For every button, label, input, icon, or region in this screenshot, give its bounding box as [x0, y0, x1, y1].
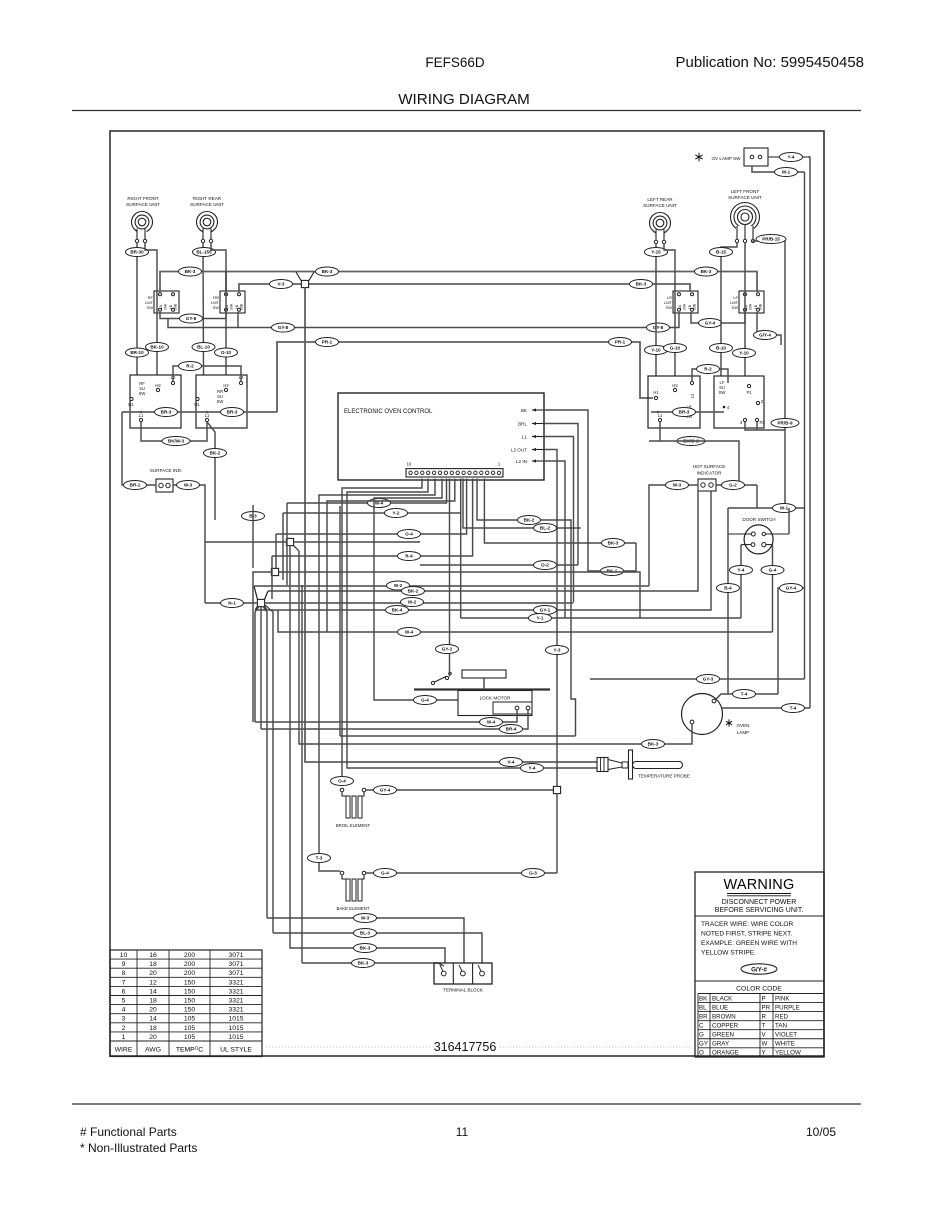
capsule R-4 y556: [398, 552, 421, 561]
svg-text:NOTED FIRST, STRIPE NEXT.: NOTED FIRST, STRIPE NEXT.: [701, 931, 792, 938]
capsule BR-30: [126, 248, 149, 257]
wire W-1 row y508: [728, 507, 805, 509]
svg-text:BK-4: BK-4: [392, 608, 403, 613]
wire N-1 row y603: [205, 602, 257, 604]
capsule O-4 y534: [398, 530, 421, 539]
svg-text:14: 14: [149, 1016, 157, 1023]
capsule GY-4 right bridge: [699, 319, 722, 328]
wire LR unit right lead down: [664, 244, 675, 376]
terminal block TB1: [434, 963, 492, 993]
svg-text:8: 8: [122, 970, 126, 977]
svg-text:V-4: V-4: [508, 760, 515, 765]
svg-text:150: 150: [184, 1007, 196, 1014]
svg-text:RIGHT FRONT: RIGHT FRONT: [127, 196, 158, 201]
svg-text:BK-2: BK-2: [408, 589, 419, 594]
svg-text:20: 20: [149, 1034, 157, 1041]
svg-text:3321: 3321: [228, 979, 243, 986]
svg-text:BRL: BRL: [518, 421, 527, 426]
wire lamp right to x810 y708: [722, 707, 810, 709]
node square junction x290 y542: [294, 546, 300, 552]
svg-text:BL-3: BL-3: [360, 931, 371, 936]
svg-text:200: 200: [184, 970, 196, 977]
capsule BL-3 y933: [354, 929, 377, 938]
capsule BK-3 bus right: [630, 280, 653, 289]
svg-text:TERMINAL BLOCK: TERMINAL BLOCK: [443, 988, 484, 993]
svg-text:10/05: 10/05: [806, 1125, 836, 1139]
capsule BK-4 y610: [386, 606, 409, 615]
wire pin15 to probe Y: [347, 479, 597, 769]
capsule B-10: [710, 344, 733, 353]
wire lock motor right terminal to x261: [261, 710, 528, 729]
svg-text:B-4: B-4: [724, 586, 732, 591]
svg-text:SW: SW: [147, 305, 154, 310]
wire y543 from connector: [484, 479, 636, 544]
svg-text:R: R: [762, 1013, 767, 1020]
svg-text:V-3: V-3: [278, 282, 285, 287]
svg-text:B-10: B-10: [716, 346, 726, 351]
svg-text:H1: H1: [128, 402, 134, 407]
svg-text:G/Y-#: G/Y-#: [751, 967, 767, 974]
svg-text:1015: 1015: [228, 1034, 243, 1041]
svg-text:Y-10: Y-10: [651, 348, 661, 353]
svg-text:H2: H2: [155, 383, 161, 388]
node square x557 y790: [553, 786, 560, 793]
capsule BK/W-3: [162, 437, 190, 446]
capsule Y-10: [645, 346, 668, 355]
svg-text:BAKE ELEMENT: BAKE ELEMENT: [337, 906, 370, 911]
svg-text:3071: 3071: [228, 952, 243, 959]
svg-text:H2: H2: [672, 383, 678, 388]
capsule T-3 bake drop: [308, 854, 331, 863]
wire LR unit left lead down: [655, 244, 657, 376]
svg-text:BL-2: BL-2: [540, 526, 551, 531]
svg-text:PINK: PINK: [775, 995, 790, 1002]
wire EOC pin BRL right vertical: [544, 424, 579, 566]
svg-text:OV LAMP SW: OV LAMP SW: [711, 156, 741, 161]
svg-text:30A: 30A: [164, 303, 168, 310]
capsule B-4: [717, 584, 740, 593]
svg-text:BK/W-3: BK/W-3: [168, 439, 185, 444]
wire RF L1 to RR L1 bridge: [141, 422, 207, 441]
capsule BK-3 y963: [352, 959, 375, 968]
svg-text:30A: 30A: [749, 303, 753, 310]
node junction square y284: [296, 272, 301, 281]
temperature probe: [597, 750, 690, 779]
svg-text:GREEN: GREEN: [712, 1032, 734, 1039]
wire pin16 to broil left: [342, 479, 422, 787]
svg-text:BK-2: BK-2: [524, 518, 535, 523]
capsule GY-4 right low: [780, 584, 803, 593]
capsule BK/O-2: [677, 437, 705, 446]
capsule W-4 y632: [398, 628, 421, 637]
capsule BK-3 lamp bottom: [642, 740, 665, 749]
svg-text:R-2: R-2: [704, 367, 712, 372]
surface unit left front: [728, 189, 762, 243]
svg-text:G-4: G-4: [421, 698, 429, 703]
capsule Y-1 y618: [529, 614, 552, 623]
svg-text:BK-2: BK-2: [210, 451, 221, 456]
svg-text:P2: P2: [759, 420, 765, 425]
svg-text:BR-10: BR-10: [130, 350, 144, 355]
svg-text:W-2: W-2: [394, 583, 403, 588]
wire L1 bus right y412: [651, 411, 724, 413]
wire y586 long: [254, 585, 649, 587]
wire bus V y284: [239, 284, 690, 292]
svg-text:VIOLET: VIOLET: [775, 1032, 797, 1039]
capsule BK-10: [146, 343, 169, 352]
svg-text:SW: SW: [217, 399, 224, 404]
lock switch contact: [431, 672, 451, 684]
capsule BR-1: [124, 481, 147, 490]
wire LF unit mid lead down: [744, 243, 746, 376]
capsule Y-4 probe: [521, 764, 544, 773]
wire lock motor left terminal to x255: [255, 710, 517, 722]
svg-text:H1: H1: [194, 402, 200, 407]
svg-text:G-4: G-4: [381, 871, 389, 876]
svg-text:T-3: T-3: [316, 856, 323, 861]
wire surface indicator row y485: [122, 412, 156, 485]
capsule B-3 on x253: [242, 512, 265, 521]
svg-text:BL-10: BL-10: [197, 345, 210, 350]
hot surface indicator lamp: [693, 464, 726, 491]
svg-text:WIRE: WIRE: [115, 1047, 133, 1054]
svg-text:18: 18: [149, 1025, 157, 1032]
door switch S1: [728, 517, 789, 554]
svg-text:W-3: W-3: [361, 916, 370, 921]
svg-text:H1: H1: [653, 390, 659, 395]
svg-text:W-1: W-1: [780, 506, 789, 511]
svg-text:* Non-Illustrated Parts: * Non-Illustrated Parts: [80, 1141, 197, 1155]
wire bus PR y342: [277, 342, 653, 412]
svg-text:SURFACE IND.: SURFACE IND.: [150, 468, 182, 473]
wire RF unit left lead down: [136, 243, 138, 375]
svg-text:Y-1: Y-1: [537, 616, 544, 621]
wire RR unit right lead down: [211, 243, 226, 375]
wire x461 down to y618: [460, 513, 462, 618]
capsule G-4 lock motor: [414, 696, 437, 705]
capsule GY-8 long left: [272, 323, 295, 332]
wire terminal row y963: [302, 963, 444, 966]
svg-text:BK-3: BK-3: [636, 282, 647, 287]
dotted rule at part number: [266, 1046, 430, 1048]
svg-text:BK-3: BK-3: [608, 541, 619, 546]
wire y528 from connector: [463, 479, 581, 529]
svg-text:W: W: [762, 1041, 768, 1048]
svg-text:HOT SURFACE: HOT SURFACE: [693, 464, 726, 469]
capsule GY-2 lock switch: [436, 645, 459, 654]
svg-text:18: 18: [149, 998, 157, 1005]
wire y632 long: [278, 610, 773, 632]
capsule O-4 broil drop: [331, 777, 354, 786]
oven lamp switch: [695, 148, 768, 166]
node square junction x275 y572: [271, 568, 278, 575]
svg-text:30B: 30B: [174, 303, 178, 310]
electronic oven control U1: [338, 393, 544, 480]
svg-text:BK-3: BK-3: [360, 946, 371, 951]
wire bus L1 top y271: [160, 272, 757, 293]
svg-text:1015: 1015: [228, 1025, 243, 1032]
wire y679 across to right: [590, 678, 805, 680]
surface unit left rear: [643, 197, 677, 244]
switch RF limit: [145, 291, 179, 313]
svg-text:GY-3: GY-3: [703, 677, 714, 682]
wire right bus x810 down: [808, 157, 810, 708]
svg-text:Y: Y: [762, 1050, 766, 1057]
svg-text:O-10: O-10: [221, 350, 232, 355]
switch RF surface: [128, 375, 181, 428]
capsule W-2 y602: [401, 598, 424, 607]
wire probe V main vertical x305: [305, 288, 597, 762]
wire door bottom-left pin down to y618: [740, 545, 742, 618]
svg-text:W-3: W-3: [184, 483, 193, 488]
svg-text:UL STYLE: UL STYLE: [220, 1047, 252, 1054]
wire LF unit right lead to PR/B bus: [753, 241, 785, 508]
svg-text:3: 3: [122, 1016, 126, 1023]
wire y591 long: [268, 491, 698, 591]
svg-text:SW: SW: [719, 390, 726, 395]
svg-text:BK-1: BK-1: [607, 569, 618, 574]
wire RR limit bottom right riser: [237, 312, 239, 328]
svg-text:R-4: R-4: [405, 554, 413, 559]
svg-text:COLOR CODE: COLOR CODE: [736, 986, 782, 993]
svg-text:30A: 30A: [683, 303, 687, 310]
svg-text:20: 20: [149, 970, 157, 977]
svg-text:OVEN: OVEN: [736, 723, 749, 728]
capsule BL-2 y528: [534, 524, 557, 533]
wire LF P2 pins down to PR/B bus: [745, 422, 785, 430]
capsule BK-2 y591: [402, 587, 425, 596]
switch RR limit: [211, 291, 245, 313]
capsule R-2 right: [697, 365, 720, 374]
node square junction main x261 y603: [254, 586, 258, 600]
svg-text:Y-4: Y-4: [788, 155, 795, 160]
svg-text:RIGHT REAR: RIGHT REAR: [193, 196, 222, 201]
svg-text:200: 200: [184, 952, 196, 959]
svg-text:LOCK MOTOR: LOCK MOTOR: [480, 696, 511, 701]
svg-text:GY-4: GY-4: [380, 788, 391, 793]
svg-text:30B: 30B: [759, 303, 763, 310]
svg-text:BR-1: BR-1: [130, 483, 141, 488]
svg-text:BK-3: BK-3: [701, 269, 712, 274]
bake element: [337, 871, 370, 911]
capsule BR-4 motor right: [500, 725, 523, 734]
capsule V-3 bus: [270, 280, 293, 289]
svg-text:Publication No: 5995450458: Publication No: 5995450458: [676, 54, 864, 71]
svg-text:200: 200: [184, 961, 196, 968]
surface unit right rear: [190, 196, 224, 243]
wire gauge table: [110, 950, 262, 1057]
svg-text:3321: 3321: [228, 1007, 243, 1014]
wire right x757 down to y508: [756, 485, 758, 508]
svg-text:4: 4: [122, 1007, 126, 1014]
wire LR-LF limit bottom bridge: [691, 312, 745, 323]
svg-text:BROIL ELEMENT: BROIL ELEMENT: [336, 823, 371, 828]
svg-text:GY-2: GY-2: [442, 647, 453, 652]
svg-text:O-4: O-4: [338, 779, 346, 784]
svg-text:T-4: T-4: [741, 692, 748, 697]
svg-text:BK-3: BK-3: [185, 269, 196, 274]
wire door bottom-right pin down to y632: [772, 545, 774, 632]
svg-text:BR-3: BR-3: [679, 410, 690, 415]
capsule BK-3 y948: [354, 944, 377, 953]
svg-text:RED: RED: [775, 1013, 789, 1020]
footer rule: [72, 1103, 861, 1105]
svg-text:B-15: B-15: [716, 250, 726, 255]
svg-text:YELLOW STRIPE.: YELLOW STRIPE.: [701, 950, 756, 957]
capsule G-4 bake: [374, 869, 397, 878]
svg-text:W-1: W-1: [782, 170, 791, 175]
svg-text:12: 12: [149, 979, 157, 986]
svg-text:SW: SW: [732, 305, 739, 310]
svg-text:PURPLE: PURPLE: [775, 1004, 800, 1011]
svg-text:BR-30: BR-30: [130, 250, 144, 255]
capsule BL-155: [193, 248, 216, 257]
svg-text:GY-4: GY-4: [705, 321, 716, 326]
svg-text:ELECTRONIC OVEN CONTROL: ELECTRONIC OVEN CONTROL: [344, 409, 433, 415]
svg-text:BL: BL: [699, 1004, 707, 1011]
wire y572 left to x253: [253, 572, 271, 722]
svg-text:BR-3: BR-3: [227, 410, 238, 415]
svg-text:1B: 1B: [688, 304, 692, 309]
svg-text:SURFACE UNIT: SURFACE UNIT: [728, 195, 762, 200]
svg-text:LAMP: LAMP: [737, 730, 750, 735]
wire T-4 chain up to GY-4 row: [778, 588, 805, 694]
svg-text:BLACK: BLACK: [712, 995, 733, 1002]
capsule Y-4 lamp switch: [780, 153, 803, 162]
capsule N-1: [221, 599, 244, 608]
svg-text:BK-3: BK-3: [358, 961, 369, 966]
wire oven lamp switch to Y-4: [768, 156, 808, 158]
svg-text:1B: 1B: [754, 304, 758, 309]
wire branch RR limit top: [225, 272, 227, 293]
capsule W-1 right: [773, 504, 796, 513]
capsule PR/B-15: [756, 235, 786, 244]
svg-text:L2: L2: [690, 393, 695, 398]
svg-text:3071: 3071: [228, 961, 243, 968]
wire terminal row y918: [267, 918, 464, 963]
svg-text:SW: SW: [139, 391, 146, 396]
svg-text:18: 18: [149, 961, 157, 968]
capsule W-3 surface ind: [177, 481, 200, 490]
svg-text:BLUE: BLUE: [712, 1004, 728, 1011]
svg-text:T-4: T-4: [790, 706, 797, 711]
svg-text:L1: L1: [522, 434, 528, 439]
svg-text:O-4: O-4: [405, 532, 413, 537]
wire lamp bottom to y744: [299, 551, 692, 744]
svg-text:L1: L1: [139, 413, 144, 418]
capsule BR-3 right: [673, 408, 696, 417]
capsule BK-1 y571: [601, 567, 624, 576]
svg-text:Y-15: Y-15: [651, 250, 661, 255]
capsule BR-3 in RF: [155, 408, 178, 417]
wire y542 from x205: [205, 541, 286, 543]
svg-text:BK-10: BK-10: [150, 345, 164, 350]
svg-text:GY: GY: [699, 1041, 708, 1048]
svg-text:150: 150: [184, 988, 196, 995]
wire RR L1 down split: [207, 422, 215, 520]
svg-text:5: 5: [122, 998, 126, 1005]
wire pin11 to y736 bundle: [339, 506, 341, 736]
svg-text:BK-3: BK-3: [648, 742, 659, 747]
svg-text:1A: 1A: [678, 304, 682, 309]
svg-text:SW: SW: [213, 305, 220, 310]
svg-text:150: 150: [184, 998, 196, 1005]
capsule GY-4 broil: [374, 786, 397, 795]
wire square to terminal y933 x273: [265, 605, 273, 933]
svg-text:2: 2: [122, 1025, 126, 1032]
svg-text:7: 7: [122, 979, 126, 986]
svg-text:W-3: W-3: [673, 483, 682, 488]
capsule G-4 door right: [761, 566, 784, 575]
capsule W-1 lamp switch: [775, 168, 798, 177]
svg-text:105: 105: [184, 1034, 196, 1041]
svg-text:W-2: W-2: [408, 600, 417, 605]
svg-text:11: 11: [456, 1125, 469, 1139]
svg-text:6: 6: [122, 988, 126, 995]
capsule G-10: [664, 344, 687, 353]
svg-text:C: C: [699, 1022, 704, 1029]
capsule BK-2 split: [204, 449, 227, 458]
svg-text:PR/B-9: PR/B-9: [777, 421, 793, 426]
color code table: [698, 986, 824, 1057]
svg-text:14: 14: [149, 988, 157, 995]
svg-text:PR-1: PR-1: [322, 340, 333, 345]
capsule T-4 lamp top: [733, 690, 756, 699]
svg-text:BROWN: BROWN: [712, 1013, 736, 1020]
svg-text:Y-3: Y-3: [554, 648, 561, 653]
wire RF-RR limit bottom bridge: [160, 312, 226, 319]
svg-text:BR: BR: [699, 1013, 708, 1020]
svg-text:WARNING: WARNING: [724, 877, 795, 893]
wire pin14 to bake left: [319, 479, 435, 872]
svg-text:L2 IN: L2 IN: [516, 459, 527, 464]
svg-text:105: 105: [184, 1016, 196, 1023]
svg-text:16: 16: [149, 952, 157, 959]
svg-text:AWG: AWG: [145, 1047, 161, 1054]
wire RF unit right lead down: [145, 243, 157, 375]
svg-text:TRACER WIRE: WIRE COLOR: TRACER WIRE: WIRE COLOR: [701, 921, 794, 928]
svg-text:16: 16: [407, 462, 412, 467]
switch LF limit: [730, 291, 764, 313]
svg-text:SURFACE UNIT: SURFACE UNIT: [126, 202, 160, 207]
capsule G-3 bake right: [522, 869, 545, 878]
svg-text:Y-2: Y-2: [393, 511, 400, 516]
svg-text:3071: 3071: [228, 970, 243, 977]
capsule BK-3 top left: [179, 267, 202, 276]
switch RR surface: [194, 375, 247, 428]
capsule BK-3 top right: [695, 267, 718, 276]
capsule T-4 lamp right: [782, 704, 805, 713]
svg-text:1: 1: [122, 1034, 126, 1041]
svg-text:10: 10: [120, 952, 128, 959]
svg-text:R-2: R-2: [186, 364, 194, 369]
capsule BK-3 top mid: [316, 267, 339, 276]
wire LF limit bottom to G/Y-4: [757, 312, 781, 345]
svg-text:3321: 3321: [228, 988, 243, 995]
wire square to motor right x261: [260, 606, 262, 729]
capsule W-4 y503: [368, 499, 391, 508]
svg-text:LEFT FRONT: LEFT FRONT: [731, 189, 759, 194]
svg-text:GY-8: GY-8: [278, 325, 289, 330]
svg-text:N-1: N-1: [228, 601, 236, 606]
wire EOC pin L1 right vertical: [544, 437, 574, 603]
svg-text:GY-8: GY-8: [653, 325, 664, 330]
switch LR limit: [664, 291, 698, 313]
svg-text:1B: 1B: [169, 304, 173, 309]
capsule O-2 y565: [534, 561, 557, 570]
wire y534 row: [276, 479, 467, 535]
svg-text:316417756: 316417756: [434, 1040, 497, 1054]
